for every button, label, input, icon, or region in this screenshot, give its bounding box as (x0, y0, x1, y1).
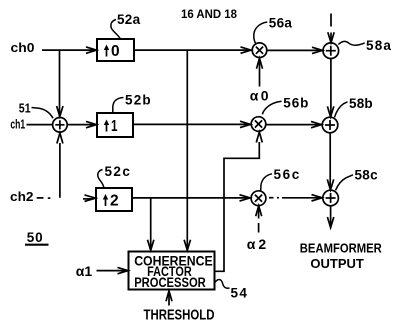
svg-text:54: 54 (231, 286, 249, 301)
svg-text:16 AND 18: 16 AND 18 (181, 9, 238, 21)
wire tap ch0 line down to adder 51 (57, 50, 63, 116)
svg-text:2: 2 (110, 192, 119, 209)
svg-text:0: 0 (111, 43, 120, 60)
svg-text:56b: 56b (283, 96, 309, 111)
svg-text:BEAMFORMER: BEAMFORMER (300, 240, 383, 255)
svg-text:PROCESSOR: PROCESSOR (134, 275, 206, 290)
svg-text:α2: α2 (247, 236, 269, 252)
wire adder 58b to adder 58c (327, 133, 333, 190)
svg-text:56a: 56a (269, 15, 293, 30)
wire ch1 to adder 51 (27, 124, 53, 126)
label 52a (111, 12, 141, 39)
wire 52a to multiplier 56a (134, 47, 251, 53)
label 56a (254, 15, 293, 43)
adder 58c (323, 190, 339, 206)
svg-text:THRESHOLD: THRESHOLD (144, 306, 215, 323)
label 56c (261, 167, 301, 191)
node ch1 (10, 118, 25, 132)
adder 51 (53, 118, 68, 133)
wire ch2 dashed segment (37, 197, 51, 199)
wire alpha2 input into multiplier 56c (256, 206, 262, 233)
label alpha2 (247, 236, 269, 252)
label 52c (98, 164, 131, 188)
wire adder 58a to adder 58b (327, 59, 333, 117)
adder 58a (323, 43, 339, 59)
wire tap down to coherence processor (184, 50, 190, 250)
svg-text:56c: 56c (274, 167, 301, 182)
wire 56a to adder 58a (267, 47, 323, 53)
wire alpha0 input into multiplier 56a (257, 58, 263, 86)
label 50 (25, 230, 49, 245)
multiplier 56c (251, 191, 266, 206)
svg-text:51: 51 (19, 100, 31, 115)
svg-text:58c: 58c (355, 167, 379, 182)
wire adder 51 to delay 52b (67, 121, 96, 127)
label alpha1 (76, 263, 93, 279)
svg-text:52b: 52b (125, 92, 152, 107)
svg-text:α0: α0 (250, 87, 271, 103)
svg-text:58a: 58a (366, 38, 392, 53)
label 56b (262, 96, 309, 115)
svg-text:ch2: ch2 (10, 190, 34, 204)
label THRESHOLD (144, 306, 215, 323)
wire alpha1 into coherence processor (97, 267, 129, 273)
node ch2 (10, 190, 34, 204)
multiplier 56b (251, 117, 266, 132)
label BEAMFORMER OUTPUT (300, 240, 383, 271)
wire 52b to multiplier 56b (133, 121, 251, 127)
svg-text:52a: 52a (117, 12, 141, 27)
svg-text:58b: 58b (349, 96, 373, 111)
label 51 (19, 100, 53, 118)
label 54 (215, 280, 249, 301)
wire 52c output tap down to coherence processor (148, 198, 154, 250)
wire 52c to multiplier 56c (132, 195, 250, 201)
svg-text:1: 1 (111, 118, 118, 135)
wire beamformer output from adder 58c (327, 206, 333, 228)
svg-text:ch0: ch0 (11, 41, 35, 55)
label alpha0 (250, 87, 271, 103)
wire ch2 line up into adder 51 (57, 133, 63, 198)
wire threshold into coherence processor (166, 291, 172, 306)
svg-text:OUTPUT: OUTPUT (310, 256, 364, 271)
delay block 52c (96, 188, 132, 211)
wire 56c to adder 58c dash-dot (269, 195, 322, 201)
delay block 52a (97, 39, 134, 61)
label 58c (336, 167, 379, 190)
svg-text:50: 50 (27, 230, 44, 245)
wire ch0 to delay 52a (42, 47, 97, 53)
wire arrow into delay 52c (83, 195, 96, 202)
svg-text:α1: α1 (76, 263, 93, 279)
wire coherence output up to multiplier 56b (215, 132, 263, 271)
node ch0 (11, 41, 35, 55)
coherence factor processor box 54 (129, 252, 215, 290)
wire input into adder 58a from top (328, 14, 334, 43)
label 52b (113, 92, 152, 113)
label 58a (338, 38, 392, 53)
multiplier 56a (252, 43, 267, 58)
label 58b (335, 96, 373, 117)
svg-text:ch1: ch1 (10, 118, 25, 132)
adder 58b (322, 117, 338, 133)
delay block 52b (97, 113, 133, 137)
svg-text:52c: 52c (105, 164, 132, 179)
wire 56b to adder 58b (266, 121, 322, 127)
label 16 AND 18 (181, 9, 238, 21)
